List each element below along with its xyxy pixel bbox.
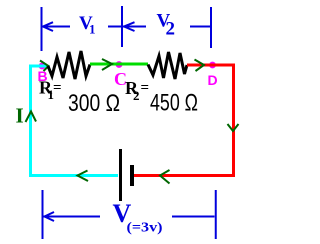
dimension tick left (V1 start) [41,7,43,51]
dimension tick right (V2 end) [210,7,212,48]
current arrow on bottom-right wire (left chevron) [160,170,170,184]
dimension line segment V1 [42,26,70,28]
resistor R2 zigzag [148,52,187,79]
dimension line segment right of V2 [190,26,210,28]
bottom dimension tick left [42,190,44,239]
current arrow at node B (dark green chevron) [40,61,49,72]
resistor R1 zigzag [48,51,90,79]
current arrow at node C (dark green chevron) [102,59,112,70]
current arrow at node D (dark green chevron) [195,60,205,72]
dimension line segment V2 [108,26,146,28]
wire: left vertical (cyan) [29,65,32,177]
bottom dimension tick right [215,190,217,239]
arrowhead V2 (points left at middle tick) [124,22,135,31]
current arrow on bottom-left wire (left chevron) [78,171,89,182]
wire: right vertical (red) [232,64,235,177]
svg-text:450 Ω: 450 Ω [150,90,198,117]
svg-text:I: I [16,104,24,128]
wire: top-right horizontal (red) [187,64,235,67]
svg-text:=: = [141,80,150,96]
svg-text:2: 2 [166,19,176,40]
bottom dimension line left segment [44,216,101,218]
svg-text:2: 2 [133,88,140,103]
wire: bottom-right horizontal (red) [134,174,235,177]
node C dot [116,61,123,68]
svg-text:=: = [53,80,62,96]
bottom dimension line right segment [172,216,215,218]
wire: top-left horizontal (cyan) [29,65,48,68]
node B dot [39,63,46,70]
current arrow on right wire (down chevron) [228,124,239,131]
svg-text:D: D [208,72,218,88]
svg-text:300 Ω: 300 Ω [68,90,120,117]
node D dot [209,62,216,69]
wire: middle horizontal (bright green) [90,63,148,66]
battery short plate [130,165,134,186]
bottom dimension arrowhead (points left) [45,212,55,221]
current arrow on left wire (up chevron) [26,112,37,123]
dimension tick middle (V1/V2 boundary) [121,6,123,47]
wire: bottom-left horizontal (cyan) [29,174,118,177]
battery long plate [119,149,122,201]
arrowhead V1 (points left at left tick) [43,22,53,31]
svg-text:1: 1 [89,22,96,37]
svg-text:(=3v): (=3v) [127,221,163,236]
